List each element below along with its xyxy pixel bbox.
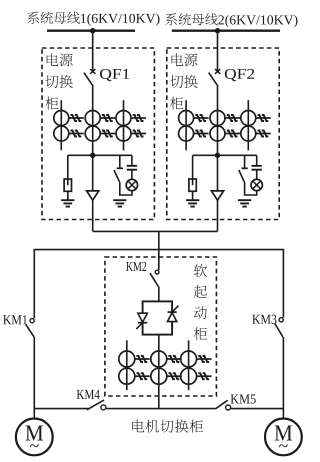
电源切换柜 box 1 (dashed enclosure) (42, 48, 154, 220)
motor M2 (265, 419, 302, 456)
CT stub left (60, 100, 62, 150)
label 电源切换柜 (45, 53, 73, 109)
collector wire (193, 154, 257, 156)
node: bus2 tap (215, 28, 220, 33)
label 软起动柜 (vertical) (194, 264, 207, 340)
breaker QF1 (84, 69, 95, 86)
earthing switch branch (239, 155, 257, 195)
电源切换柜 box 2 (dashed enclosure) (167, 48, 279, 220)
CT middle pair (soft) (151, 351, 182, 367)
contactor KM5 (216, 400, 231, 410)
wire bus drop to QF2 (217, 31, 219, 72)
label 电机切换柜 (132, 420, 203, 433)
CT stub left (185, 100, 187, 150)
ground (61, 200, 74, 206)
cable head (outgoing) (217, 155, 219, 231)
fuse FU (189, 179, 196, 191)
SCR V2 (right, conducts up) (167, 306, 178, 322)
label QF1 (100, 69, 129, 81)
bus 1 (thick busbar) (47, 30, 135, 32)
wire fuse to ground (192, 191, 194, 200)
motor M1 (16, 419, 53, 456)
soft starter cabinet (dashed enclosure) (105, 257, 216, 396)
CT middle pair (85, 111, 115, 126)
capacitor / voltage tap (127, 155, 137, 179)
label 电源切换柜 (170, 53, 198, 109)
ground (186, 200, 199, 206)
system bus 2 label (165, 13, 218, 25)
bottom changeover wire (34, 408, 283, 410)
fuse FU (64, 179, 71, 191)
node: bus1 tap (90, 28, 95, 33)
wire bus drop to QF1 (92, 31, 94, 72)
cable head (outgoing) (92, 155, 94, 231)
label KM3 (252, 315, 276, 324)
indicator lamp (251, 179, 262, 190)
junction node (90, 153, 95, 158)
wire: distribution line B feeding KM1/KM3 (34, 250, 283, 319)
wire fuse to ground (67, 191, 69, 200)
capacitor / voltage tap (252, 155, 262, 179)
PT fuse branch wire (192, 155, 194, 179)
system bus 1 label (27, 12, 80, 24)
thyristor block (soft start SCR pair) (143, 301, 173, 334)
label KM2 (126, 262, 146, 271)
junction node (215, 153, 220, 158)
wire QF1 to collector (92, 86, 94, 155)
label QF2 (225, 69, 254, 81)
SCR V1 (left, conducts down) (136, 313, 147, 329)
CT stub right (123, 100, 125, 150)
earthing switch branch (114, 155, 132, 195)
CT middle pair (210, 111, 240, 126)
ground of earthing switch (113, 200, 126, 206)
breaker QF2 (209, 69, 221, 86)
CT stub left (soft) (126, 340, 128, 390)
PT fuse branch wire (67, 155, 69, 179)
collector wire (68, 154, 132, 156)
wire KM2 to thyristor block (158, 286, 160, 301)
wire: drop to distribution line B (158, 231, 160, 270)
bus 2 (thick busbar) (172, 30, 280, 32)
ground of earthing switch (238, 200, 251, 206)
label KM1 (3, 315, 27, 324)
wire KM3 to motor 2 (282, 337, 284, 418)
wire thyristor to CTs and out (158, 335, 160, 409)
CT stub right (soft) (188, 340, 190, 390)
label KM5 (231, 394, 256, 403)
wire: tie line A joining both incomers (93, 230, 218, 232)
wire QF2 to collector (217, 86, 219, 155)
contactor KM1 (26, 319, 34, 337)
contactor KM2 (150, 270, 159, 286)
contactor KM3 (275, 318, 283, 337)
contactor KM4 (87, 400, 106, 410)
label KM4 (77, 390, 100, 399)
CT stub right (247, 100, 249, 150)
indicator lamp (126, 179, 137, 190)
wire KM1 to motor 1 (33, 337, 35, 419)
